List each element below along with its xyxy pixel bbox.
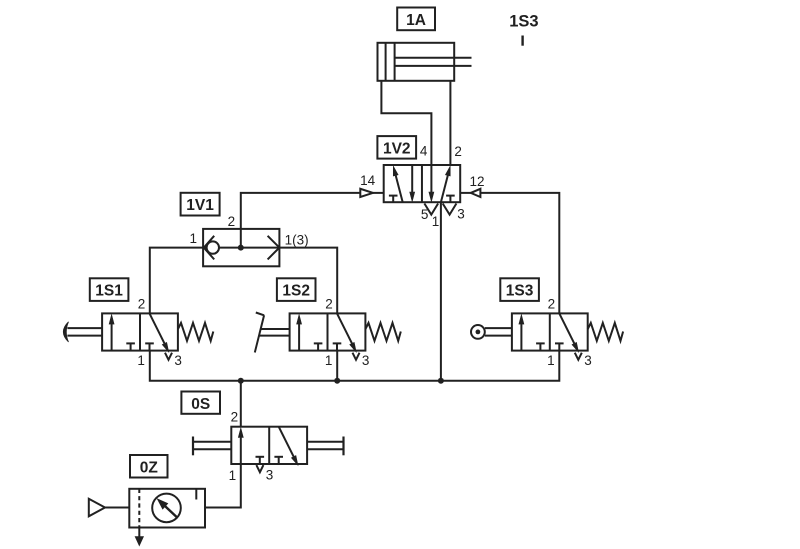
port labels 1S3 <box>547 296 592 368</box>
wire 1S1 port 2 to 1V1 port 1 <box>150 248 203 314</box>
label box 1S3 <box>500 278 539 301</box>
svg-text:3: 3 <box>174 353 182 368</box>
svg-text:2: 2 <box>228 214 236 229</box>
node junction 1S2-bus <box>334 378 340 384</box>
port labels 1S1 <box>137 296 182 368</box>
hand slide actuator left 0S <box>193 437 231 456</box>
valve 1S2 body (3/2) <box>290 313 366 352</box>
svg-text:12: 12 <box>469 174 484 189</box>
svg-text:0S: 0S <box>191 396 210 413</box>
svg-text:1S2: 1S2 <box>282 283 310 300</box>
svg-text:2: 2 <box>138 296 146 311</box>
port labels 1S2 <box>325 296 370 368</box>
valve 0S body (3/2 shown open) <box>231 427 307 466</box>
svg-text:3: 3 <box>362 353 370 368</box>
shuttle valve 1V1 body <box>203 229 279 266</box>
hand slide actuator right 0S <box>307 437 343 456</box>
svg-text:2: 2 <box>325 296 333 311</box>
valve 1S1 body (3/2) <box>102 313 178 352</box>
wire cylinder right port to 1V2 port 2 <box>449 81 451 165</box>
port labels 0S <box>229 410 274 484</box>
exhaust port 3 of 1V2 <box>443 204 457 215</box>
pressure gauge / regulator 0Z <box>152 494 181 523</box>
svg-text:4: 4 <box>420 144 428 159</box>
svg-text:5: 5 <box>421 207 429 222</box>
label box 0Z <box>130 455 168 478</box>
wire supply bus (1S1 to 1S3 port 1) <box>150 351 560 381</box>
svg-text:1V1: 1V1 <box>186 197 214 214</box>
spring return 1S3 <box>588 323 623 341</box>
svg-text:14: 14 <box>360 173 376 188</box>
spring return 1S2 <box>365 323 400 341</box>
drain exhaust arrow 0Z <box>135 528 144 547</box>
svg-text:3: 3 <box>457 207 465 222</box>
wire 1S2 port 1 to bus <box>336 351 338 381</box>
port labels 1V1 <box>189 214 308 247</box>
svg-text:1(3): 1(3) <box>285 232 309 247</box>
exhaust port 5 of 1V2 <box>424 204 438 215</box>
limit position tick I <box>521 36 523 46</box>
svg-text:1S3: 1S3 <box>506 283 534 300</box>
valve 1V2 body (5/2) <box>384 165 461 202</box>
label box 0S <box>181 392 220 414</box>
svg-text:1V2: 1V2 <box>383 140 411 157</box>
svg-text:3: 3 <box>584 353 592 368</box>
svg-text:1: 1 <box>432 214 440 229</box>
label box 1S1 <box>90 278 129 301</box>
shuttle valve 1V1 left seat <box>204 236 214 260</box>
svg-text:2: 2 <box>548 296 556 311</box>
svg-text:1: 1 <box>325 353 333 368</box>
roller actuator 1S3 <box>471 325 512 339</box>
shuttle valve 1V1 ball <box>207 241 219 253</box>
wire bus to 0S port 2 <box>240 381 242 427</box>
node junction 0S-bus <box>238 378 244 384</box>
label box 1A <box>397 8 435 31</box>
service unit 0Z body <box>129 489 205 528</box>
exhaust port 3 1S1 <box>165 353 172 360</box>
spring return 1S1 <box>178 323 213 341</box>
wire 1V1 port 1(3) to 1S2 port 2 <box>279 248 337 314</box>
wire cylinder left port to 1V2 port 4 <box>381 81 431 165</box>
svg-text:1A: 1A <box>406 12 426 29</box>
svg-text:2: 2 <box>454 144 462 159</box>
svg-text:1: 1 <box>189 231 197 246</box>
push button actuator 1S1 <box>63 322 102 342</box>
svg-text:1S3: 1S3 <box>509 12 538 30</box>
wire pilot 12 to 1S3 port 2 <box>480 193 559 314</box>
exhaust port 3 1S3 <box>575 353 582 360</box>
wire 0S port 1 to 0Z output <box>205 464 241 508</box>
node junction 1V2-bus <box>438 378 444 384</box>
valve 1S3 body (3/2) <box>512 313 588 352</box>
label box 1S2 <box>277 278 316 301</box>
exhaust port 3 of 0S <box>256 465 263 472</box>
pilot 14 (left) of 1V2 <box>360 189 383 197</box>
wire 1V1 port 2 to pilot 14 <box>241 193 360 248</box>
port labels 1V2 <box>360 144 484 230</box>
pilot 12 (right) of 1V2 <box>460 189 480 197</box>
lever actuator 1S2 <box>255 313 290 353</box>
label box 1V1 <box>181 193 220 216</box>
svg-text:2: 2 <box>231 410 239 425</box>
label box 1V2 <box>377 136 416 159</box>
cylinder 1A (double-acting) <box>378 43 472 81</box>
wire 1V2 port 1 to supply bus <box>440 202 442 381</box>
compressed air source 0Z <box>89 499 130 517</box>
node junction 1V1 port 2 <box>238 245 244 251</box>
shuttle valve 1V1 right seat <box>268 236 280 260</box>
svg-text:1: 1 <box>137 353 145 368</box>
svg-text:1: 1 <box>229 468 237 483</box>
svg-text:1S1: 1S1 <box>95 283 123 300</box>
svg-text:0Z: 0Z <box>140 459 159 476</box>
text 1S3 (limit marker label) <box>509 12 538 30</box>
svg-text:3: 3 <box>266 467 274 482</box>
exhaust port 3 1S2 <box>353 353 360 360</box>
svg-text:1: 1 <box>547 353 555 368</box>
